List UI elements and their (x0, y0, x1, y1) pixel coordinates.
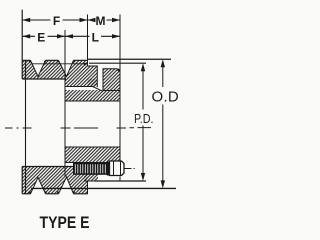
rim top edge (O.D.) upper (22, 59, 88, 61)
bushing left end / E-L boundary line (64, 30, 66, 177)
rim top edge lower (22, 166, 74, 168)
flange chamfer corner dot (117, 69, 119, 71)
bore line lower (65, 146, 120, 148)
P.D. dimension line with arrows (142, 69, 144, 176)
groove flank tip marks upper (29, 60, 31, 62)
bolt centerline (125, 168, 135, 170)
rim right face lower (87, 181, 89, 194)
horizontal centerline (dash-dot) (5, 127, 151, 129)
hub column lower section (84, 163, 98, 182)
groove 1 lower (31, 178, 46, 195)
groove 2 lower (59, 177, 74, 195)
bolt thread shank (73, 163, 110, 175)
groove 1 upper (31, 60, 46, 77)
hub bore edge and bushing taper line upper (65, 87, 103, 92)
barrel band bottom edge lower (65, 162, 120, 164)
bolt washer face (107, 162, 110, 176)
left face and extension line (21, 10, 23, 194)
bushing flange upper section (103, 69, 120, 91)
hub and flange bottom edge lower (84, 180, 120, 182)
rim bottom edge (O.D.) lower (22, 193, 88, 195)
svg-text:P.D.: P.D. (134, 111, 154, 126)
svg-text:E: E (37, 30, 45, 44)
groove flank tip marks lower (29, 191, 31, 193)
bolt hex head (110, 161, 125, 176)
pitch line across grooves upper (31, 63, 88, 65)
sheave web upper section (65, 79, 98, 87)
svg-text:M: M (96, 14, 106, 28)
sheave rim lower section (hatched band) (22, 167, 87, 194)
O.D. baseline bottom (31, 187, 176, 189)
F extension line (87, 15, 89, 61)
P.D. extension line bottom (96, 180, 146, 182)
L dimension line (65, 35, 120, 37)
bore line upper (65, 100, 120, 102)
flange right face lower (119, 177, 121, 182)
rim web bottom edge upper (22, 78, 66, 80)
right flange face / M-L extension line (119, 15, 121, 163)
F dimension line (22, 19, 87, 21)
svg-text:L: L (92, 30, 99, 44)
O.D. dimension line with arrows (162, 65, 164, 183)
rim right face upper (88, 60, 98, 87)
svg-text:F: F (53, 14, 60, 28)
O.D. extension line top (88, 58, 171, 60)
bushing flange bottom edge upper (103, 90, 120, 92)
bushing flange outline upper (103, 69, 120, 92)
bushing barrel upper section (65, 90, 120, 101)
groove sidewall face line (25, 60, 27, 194)
bushing barrel lower section (65, 147, 120, 163)
svg-text:O.D: O.D (152, 89, 180, 106)
svg-text:TYPE E: TYPE E (40, 214, 90, 232)
M dimension line (88, 19, 121, 21)
sheave rim upper section (hatched band) (22, 60, 87, 79)
groove 2 upper (59, 60, 74, 77)
taper gap white slot upper (97, 61, 103, 91)
sheave hub upper section (88, 66, 98, 87)
E dimension line (22, 35, 65, 37)
P.D. extension line top (89, 62, 146, 64)
